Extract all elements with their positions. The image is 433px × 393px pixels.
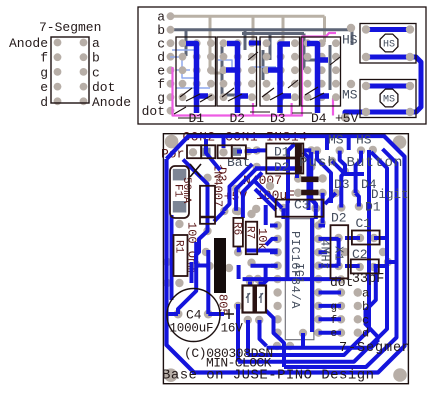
wire trace con1 drop [222,138,226,148]
resistor R1 outline [174,235,188,276]
svg-text:D2: D2 [331,211,347,226]
digit D1 outline [176,37,216,106]
wire trace ic feed right [303,152,312,332]
wire trace mid h2 [251,264,278,268]
capacitor C3 pads [279,204,320,213]
svg-text:C4: C4 [186,308,202,323]
wire trace s-curve [366,268,378,342]
diode D5 pads [294,174,327,182]
segment letters [331,287,370,341]
capacitor C4 outline [167,289,220,342]
wire trace F1 diagonal [183,160,208,265]
fuse F1 outline [170,166,189,218]
svg-text:Bat: Bat [227,155,250,170]
wire trace c4 left feed [167,312,179,316]
digit D4 pads [304,39,340,101]
ic IC1 outline [285,219,314,340]
svg-text:c: c [92,65,100,80]
resistor R7 outline [246,222,257,255]
wire trace x1 links [303,238,397,348]
wire trace ring outer [167,136,405,373]
svg-text:MS: MS [383,95,395,106]
svg-text:D4: D4 [311,111,327,126]
via pads [163,146,392,350]
wire trace via drops [237,150,242,154]
crystal X1 outline [331,225,349,278]
capacitor C4 pads [174,310,213,319]
resistor R1 pads [175,220,183,287]
svg-text:MS: MS [328,133,344,148]
svg-text:D2: D2 [230,111,246,126]
digit D2 outline [217,37,257,106]
mounting hole bottom-right [393,368,407,382]
svg-text:Push Button: Push Button [299,155,404,171]
svg-text:50mA: 50mA [180,177,192,204]
svg-text:X1: X1 [332,246,346,260]
diode D3 outline [200,186,215,224]
wire trace bottom vert c [260,320,267,346]
svg-text:d: d [40,95,48,110]
svg-text:d: d [362,327,369,341]
jumper cross [190,164,201,177]
svg-text:C1: C1 [356,216,372,231]
svg-text:1000uF/16V: 1000uF/16V [170,322,244,336]
wire trace ring n2 [284,137,397,367]
ic IC1 pads [273,221,322,337]
mounting hole bottom-left [164,368,178,382]
svg-text:dot: dot [92,80,115,95]
wire trace bottom vert a [236,304,240,362]
svg-text:D1: D1 [274,145,290,160]
svg-text:b: b [362,300,369,314]
svg-text:7-Segmen: 7-Segmen [339,341,411,356]
button MS octagon [380,89,398,107]
wire trace left mid v2 [190,262,194,283]
slate segment wires [222,34,330,96]
svg-text:R6: R6 [231,222,243,235]
wire trace nest n5 [267,342,378,348]
diode D3 band [200,216,215,219]
diode D5 bar [301,177,318,183]
connector CON1 pad1 [219,148,227,156]
wire trace c1 links [345,236,387,240]
wire trace c3 right feed [311,152,316,208]
wire trace left second vertical [170,215,174,300]
svg-text:D3: D3 [270,111,286,126]
connector CON2 pad2 [202,148,210,156]
digit D1 pads [179,39,215,101]
capacitor C2 outline [351,259,379,273]
display board outline [138,7,426,124]
display +5V blue trace [249,43,352,118]
wire trace c2 links [345,264,387,268]
wire trace c4 up diag [178,242,196,314]
resistor R7 pads [247,210,255,267]
connector CON1 outline [218,145,232,158]
svg-text:e: e [40,80,48,95]
wire trace fan stub1 [332,161,364,174]
resistor R6 pads [234,207,242,257]
svg-text:Anode: Anode [9,36,48,51]
diode D1 pads [253,146,316,154]
svg-text:D1: D1 [365,200,381,215]
net b bus wire [170,30,352,56]
wire trace mid h1 [239,246,278,252]
mounting hole top-right [393,135,407,149]
wire trace s1 feeds [238,282,261,312]
wire trace central d3 [243,173,262,212]
wire trace d6 down [321,193,325,223]
svg-text:HS: HS [356,133,372,148]
svg-text:+5V: +5V [335,111,359,126]
svg-text:33pF: 33pF [352,272,384,287]
wire trace bat link [246,149,257,153]
diode D1 band [295,144,302,158]
7-segment output pads [337,275,362,337]
diode D2 pads [253,163,316,171]
crystal X1 pads [334,234,342,270]
diode D3 pad top [203,174,211,182]
connector HS outline [360,24,416,64]
wire trace reg link [196,264,210,268]
resistor R6 outline [233,218,243,247]
digit D1 blue trace [186,44,208,114]
svg-text:c: c [362,313,369,327]
svg-text:g: g [331,301,338,313]
main board outline [163,134,408,384]
svg-text:a: a [92,36,100,51]
7-segment connector pins [54,39,88,106]
fuse F1 pad2 [173,201,187,213]
wire trace bottom vert b [246,320,250,355]
connector CON2 outline [187,145,201,158]
svg-text:Anode: Anode [92,95,131,110]
wire trace fan3 [356,151,361,193]
button HS octagon [380,34,398,52]
wire trace c3 stubs [283,208,315,219]
connector CON2 outline b [201,145,215,158]
wire trace ic left stubs [262,226,278,286]
svg-text:D1: D1 [189,111,205,126]
display board net labels a-dot [142,10,166,120]
diode D1 outline [266,144,303,158]
7-segment pin labels [9,36,131,110]
magenta segment wire 1 [173,33,337,116]
diode D2 outline [266,159,303,174]
svg-text:e: e [331,328,338,340]
svg-text:f: f [40,51,48,66]
wire trace central d1 [224,164,252,211]
svg-text:f: f [331,315,338,327]
magenta segment wire 2 [253,98,333,116]
wire trace ic right stubs [319,226,339,266]
svg-text:HS: HS [383,40,395,51]
wire trace seg row c [319,317,342,321]
svg-text:dot: dot [330,275,353,290]
svg-text:D2: D2 [274,160,290,175]
wire trace ring n3 [238,152,387,362]
svg-text:dot: dot [142,104,165,119]
switch S1 marks [246,293,263,303]
capacitor C1 pads [356,234,378,242]
capacitor C4 plus [224,309,234,319]
wire trace mid h3 [239,265,341,279]
svg-text:4MHz: 4MHz [318,239,332,270]
svg-text:7-Segmen: 7-Segmen [39,20,101,35]
svg-text:MS: MS [342,88,358,103]
wire trace seg row a [319,291,342,295]
wire trace diag pair1 [255,182,282,208]
svg-text:a: a [362,287,369,301]
capacitor C5 bar [214,238,226,293]
capacitor C2 pads [356,263,378,271]
wire trace fan2 [340,151,345,208]
digit D2 blue trace [226,44,248,114]
wire trace central d4 [264,205,268,225]
wire trace ic feed left [288,144,296,279]
switch S1 outline [243,286,267,313]
MS blue traces [352,86,410,112]
wire trace central d5 [214,211,243,222]
wire trace con2 drop [206,139,220,170]
wire trace nest n4 [248,150,370,355]
svg-text:C3: C3 [294,198,310,213]
diode D6 pads [294,189,327,197]
wire trace seg row b [319,304,342,308]
connector CON1 pad2 [233,148,241,156]
svg-text:HS: HS [342,33,358,48]
diode D2 band [295,159,302,174]
fuse F1 pad1 [173,169,187,181]
wire trace fan1 [317,151,331,203]
switch S1 divider [253,286,258,313]
mounting hole top-left [165,135,179,149]
HS blue traces [366,30,421,113]
black jumper wires [180,52,340,102]
svg-text:D3: D3 [334,177,350,192]
wire trace bent s2 [266,311,284,368]
connector CON2 pad1 [189,148,197,156]
svg-text:g: g [40,65,48,80]
wire trace fan stub3 [356,193,359,207]
svg-text:PIC16F84/A: PIC16F84/A [288,231,302,309]
svg-text:b: b [92,51,100,66]
wire trace d5 up [295,152,299,178]
net a bus wire [170,16,325,73]
digit D2 pads [220,39,256,101]
capacitor C1 outline [352,231,380,245]
wire trace fan stub2 [325,193,336,204]
connector CON1 outline b [232,145,246,158]
wire trace c4 right up [206,250,210,314]
wire trace seg row d [319,331,342,335]
black jumper wires below digits [174,107,312,118]
display board connector pads a-dot [167,12,175,114]
connector HS pads [347,24,414,61]
wire trace D1 stubs [257,148,312,152]
digit D4 blue trace [307,44,329,114]
digit D4 outline [301,37,341,106]
capacitor C3 outline [276,200,324,217]
connector MS outline [360,80,416,118]
wire trace D1D2 row [255,166,302,171]
wire trace central d2 [236,168,257,211]
wire trace diag pair2 [255,189,276,210]
light blue segment wires [170,43,276,88]
connector MS pads [341,80,414,122]
digit D3 outline [260,37,300,106]
digit D3 pads [263,39,299,101]
diode D6 bar [301,190,318,196]
wire trace c4 right exit [208,312,224,316]
digit D3 blue trace [268,44,291,113]
svg-text:Base on JUSE-PINO Design: Base on JUSE-PINO Design [162,368,374,384]
7-segment connector body [51,37,89,103]
diode D3 pad bottom [203,227,211,235]
